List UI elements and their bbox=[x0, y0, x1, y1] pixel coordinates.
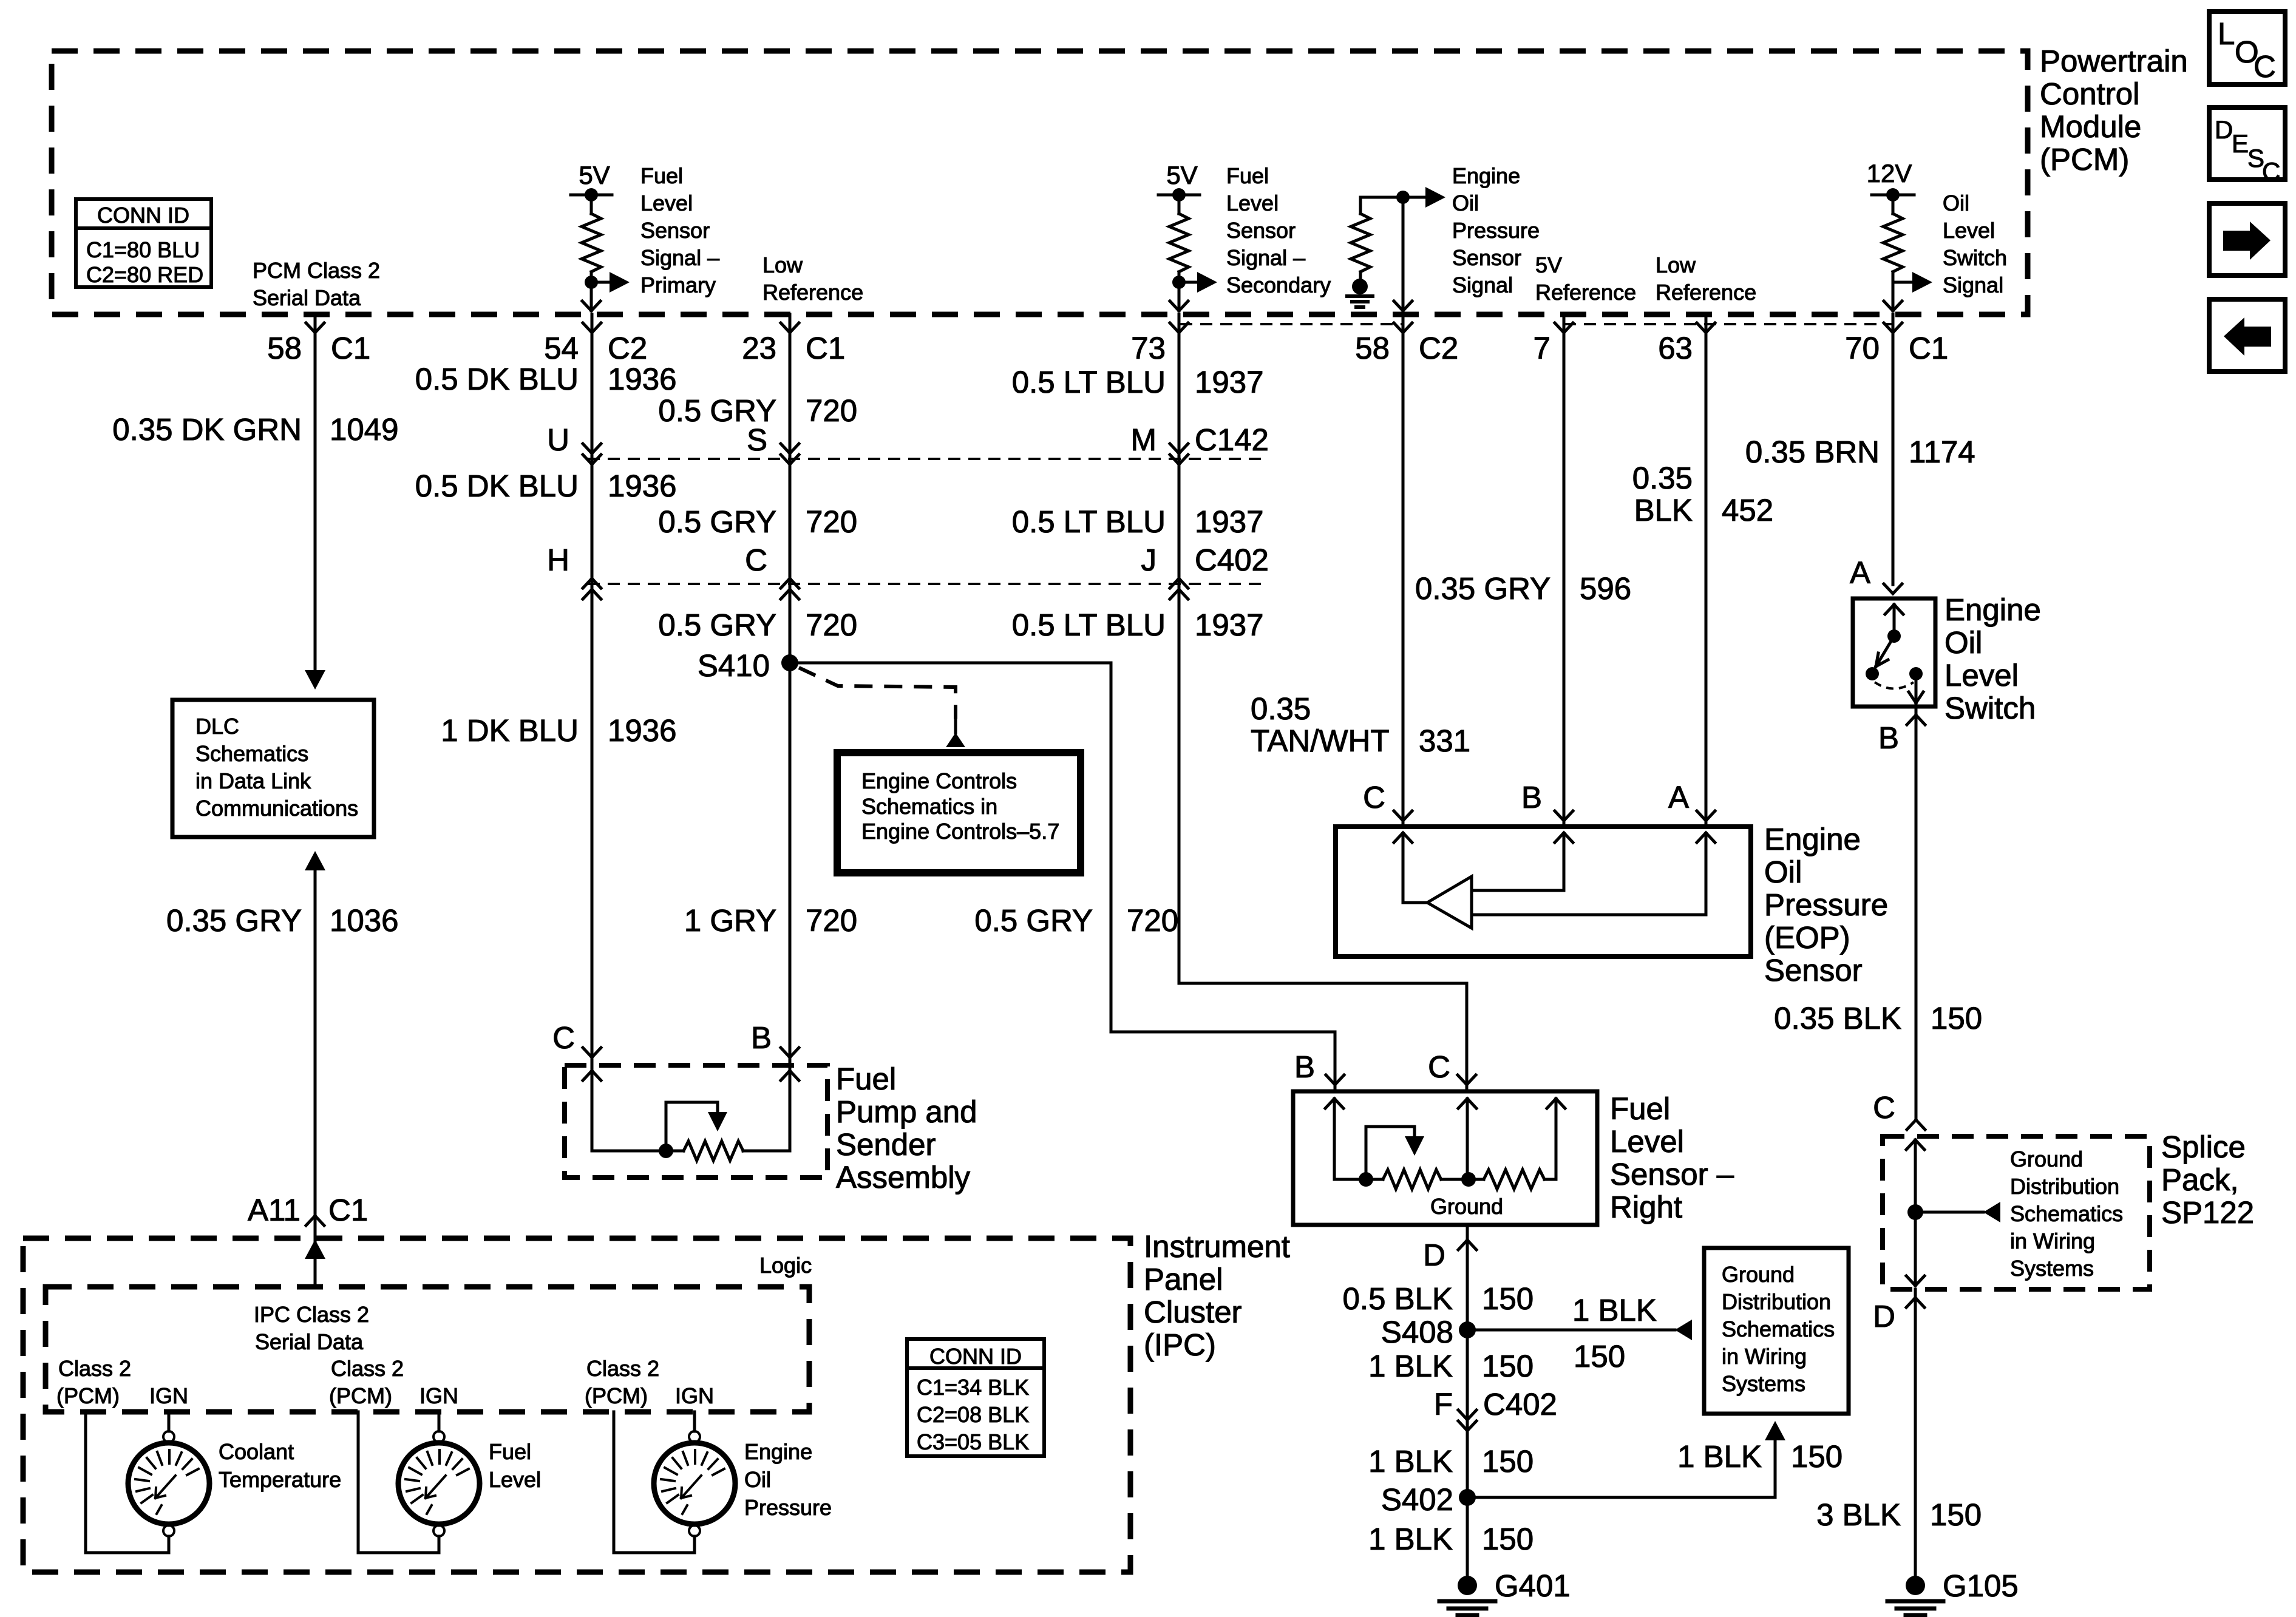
svg-text:C402: C402 bbox=[1195, 543, 1269, 577]
icon box DESC bbox=[2209, 107, 2285, 186]
5V supply rail (fuel level secondary) bbox=[1158, 188, 1200, 202]
svg-text:70: 70 bbox=[1845, 331, 1880, 365]
label Logic bbox=[759, 1253, 812, 1278]
svg-text:S408: S408 bbox=[1381, 1315, 1453, 1349]
gauge group 3 labels Class 2 (PCM) and IGN bbox=[585, 1356, 714, 1408]
svg-text:Low: Low bbox=[1656, 253, 1696, 277]
gauge group 1 IGN wire bbox=[168, 1412, 171, 1431]
svg-text:0.5 BLK: 0.5 BLK bbox=[1343, 1281, 1453, 1316]
fuel pump internal wire C with arrowhead bbox=[583, 1071, 601, 1151]
EOP pin B chevron and label bbox=[1521, 780, 1573, 821]
label PCM Class 2 Serial Data bbox=[253, 258, 380, 310]
label Fuel Level Sensor Signal - Secondary bbox=[1226, 163, 1331, 297]
svg-text:Engine Controls: Engine Controls bbox=[861, 768, 1017, 793]
EOP internal wire B with arrowhead bbox=[1472, 833, 1573, 890]
svg-text:Level: Level bbox=[1943, 218, 1995, 243]
svg-text:C2: C2 bbox=[608, 331, 647, 365]
svg-text:Sensor: Sensor bbox=[640, 218, 710, 243]
splice pack internal branch with left arrow bbox=[1915, 1202, 2000, 1222]
Ground Distribution Schematics box bbox=[1704, 1248, 1849, 1414]
CONN ID table (IPC): C1=34 BLK / C2=08 BLK / C3=05 BLK bbox=[907, 1339, 1044, 1456]
EOP internal amplifier triangle bbox=[1427, 876, 1472, 928]
C402 crossing chevrons on wire 73 with labels J and C402 bbox=[1141, 543, 1269, 599]
svg-text:A: A bbox=[1668, 780, 1689, 815]
label Fuel Level Sensor - Right bbox=[1610, 1091, 1734, 1224]
svg-text:C: C bbox=[2262, 157, 2280, 186]
label Engine Oil Pressure Sensor Signal bbox=[1452, 163, 1540, 297]
svg-text:TAN/WHT: TAN/WHT bbox=[1251, 724, 1390, 758]
svg-text:Systems: Systems bbox=[1722, 1371, 1805, 1396]
svg-text:0.35: 0.35 bbox=[1632, 461, 1693, 495]
svg-text:(EOP): (EOP) bbox=[1764, 920, 1850, 955]
wire: fuel right pin D down to ground G401 bbox=[1466, 1225, 1469, 1577]
EOP pin C chevron and label bbox=[1363, 780, 1412, 821]
svg-text:Schematics in: Schematics in bbox=[861, 794, 997, 819]
fuel right pin B chevron and label bbox=[1294, 1049, 1344, 1085]
svg-text:Pressure: Pressure bbox=[744, 1495, 832, 1520]
svg-text:Pressure: Pressure bbox=[1452, 218, 1540, 243]
gauge group 2 class 2 wire bbox=[358, 1412, 439, 1553]
svg-text:D: D bbox=[1423, 1238, 1445, 1272]
ground symbol inside PCM (oil pressure resistor) bbox=[1347, 279, 1373, 307]
svg-text:12V: 12V bbox=[1867, 159, 1912, 188]
svg-text:Ground: Ground bbox=[1430, 1194, 1503, 1219]
svg-text:Serial Data: Serial Data bbox=[253, 285, 361, 310]
svg-text:(PCM): (PCM) bbox=[2040, 142, 2129, 177]
svg-text:Engine Controls–5.7: Engine Controls–5.7 bbox=[861, 819, 1059, 844]
resistor: oil level switch pull-up bbox=[1883, 195, 1903, 282]
junction dot + horizontal jog + signal arrow (EOP sensor signal) bbox=[1360, 187, 1445, 208]
C142 crossing chevrons on wire 73 with labels M and C142 bbox=[1131, 422, 1269, 464]
svg-text:0.5 LT BLU: 0.5 LT BLU bbox=[1012, 608, 1166, 642]
svg-text:Oil: Oil bbox=[1764, 855, 1802, 889]
svg-text:Oil: Oil bbox=[1943, 191, 1969, 215]
fuel right internal right wire with arrowhead bbox=[1547, 1099, 1565, 1179]
svg-text:C2=80 RED: C2=80 RED bbox=[86, 262, 203, 287]
labels 1 BLK over 150 (S408 branch) bbox=[1572, 1293, 1657, 1374]
IPC logic inner dashed box bbox=[46, 1287, 809, 1412]
label 0.35 BLK 150 bbox=[1774, 1001, 1982, 1036]
thin dashed connector line between pins 73 and 58 C2 bbox=[1180, 323, 1403, 325]
connector C142 thin dashed line bbox=[588, 458, 1269, 460]
svg-text:Signal –: Signal – bbox=[1226, 245, 1305, 270]
label 0.5 BLK 150 bbox=[1343, 1281, 1534, 1316]
resistor: fuel level secondary pull-up bbox=[1169, 195, 1189, 282]
svg-text:54: 54 bbox=[544, 331, 579, 365]
svg-text:0.35 GRY: 0.35 GRY bbox=[166, 903, 302, 938]
svg-text:Distribution: Distribution bbox=[1722, 1289, 1831, 1314]
svg-text:73: 73 bbox=[1131, 331, 1166, 365]
svg-text:Reference: Reference bbox=[1656, 280, 1756, 305]
connector F C402 double chevron and labels bbox=[1434, 1387, 1557, 1431]
C402 crossing chevrons on wire 23 with label C bbox=[745, 543, 799, 599]
svg-text:C: C bbox=[1428, 1049, 1450, 1084]
label Fuel Pump and Sender Assembly bbox=[836, 1062, 977, 1195]
EOP internal wire C with arrowhead bbox=[1394, 833, 1427, 903]
svg-text:0.5 LT BLU: 0.5 LT BLU bbox=[1012, 365, 1166, 399]
C142 crossing chevrons on wire 54 with label U bbox=[547, 422, 601, 464]
junction dot + signal arrow (fuel level secondary) bbox=[1172, 272, 1217, 293]
svg-text:(PCM): (PCM) bbox=[329, 1383, 392, 1408]
fuel pump box pin C double chevron and label bbox=[552, 1020, 601, 1057]
svg-text:J: J bbox=[1141, 543, 1157, 577]
svg-text:1937: 1937 bbox=[1195, 365, 1263, 399]
label 12V bbox=[1867, 159, 1912, 188]
svg-text:Powertrain: Powertrain bbox=[2040, 44, 2188, 78]
PCM label text: Powertrain Control Module (PCM) bbox=[2040, 44, 2188, 177]
label 1 BLK 150 (below S408) bbox=[1368, 1349, 1533, 1383]
arrow into DLC box bbox=[305, 670, 325, 690]
svg-text:(PCM): (PCM) bbox=[56, 1383, 120, 1408]
pin 7 connector chevron and label bbox=[1533, 323, 1573, 365]
svg-text:Fuel: Fuel bbox=[1610, 1091, 1670, 1126]
label Engine Oil Pressure (EOP) Sensor bbox=[1764, 822, 1888, 988]
Splice Pack SP122 dashed box bbox=[1883, 1136, 2150, 1289]
wire: pin 58 C2 down to EOP sensor pin C (0.35 TAN/WHT 331) bbox=[1402, 314, 1405, 827]
svg-text:Schematics: Schematics bbox=[1722, 1317, 1835, 1341]
fuel right wiper arm with arrow bbox=[1366, 1127, 1424, 1179]
svg-text:58: 58 bbox=[267, 331, 302, 365]
label 1 BLK 150 (below S402) bbox=[1368, 1522, 1533, 1556]
label 1 BLK 150 (S402 branch) bbox=[1677, 1439, 1843, 1474]
wire: DLC box down to IPC (0.35 GRY 1036) bbox=[314, 870, 317, 1287]
gauge group 1 class 2 wire bbox=[86, 1412, 169, 1553]
svg-text:(IPC): (IPC) bbox=[1144, 1327, 1216, 1362]
gauge 1 (Coolant Temperature ) bbox=[128, 1431, 209, 1536]
svg-text:Oil: Oil bbox=[744, 1467, 771, 1492]
label Oil Level Switch Signal bbox=[1943, 191, 2007, 297]
fuel pump sender resistor bbox=[684, 1141, 743, 1161]
svg-text:Level: Level bbox=[1226, 191, 1279, 215]
splice pack pin D chevron and label bbox=[1873, 1298, 1924, 1334]
svg-text:Reference: Reference bbox=[1535, 280, 1636, 305]
svg-text:Pressure: Pressure bbox=[1764, 887, 1888, 922]
svg-text:Right: Right bbox=[1610, 1190, 1682, 1224]
svg-text:Signal: Signal bbox=[1452, 273, 1513, 297]
svg-text:Sender: Sender bbox=[836, 1127, 936, 1162]
svg-text:3 BLK: 3 BLK bbox=[1816, 1497, 1901, 1532]
pin 70 C1 connector chevron and labels bbox=[1845, 323, 1948, 365]
label 0.35 BLK 452 bbox=[1632, 461, 1773, 527]
wire: 1937 bend to fuel level sensor right pin C bbox=[1179, 983, 1467, 1091]
svg-text:7: 7 bbox=[1533, 331, 1550, 365]
svg-text:Level: Level bbox=[489, 1467, 541, 1492]
svg-text:1 DK BLU: 1 DK BLU bbox=[441, 713, 579, 748]
icon box forward arrow bbox=[2209, 203, 2285, 276]
pin 23 C1 connector chevron and labels bbox=[742, 323, 845, 365]
label 0.5 GRY 720 (segment 1) bbox=[658, 393, 857, 428]
svg-text:Control: Control bbox=[2040, 76, 2139, 111]
svg-text:D: D bbox=[2215, 115, 2233, 144]
svg-text:C1=80 BLU: C1=80 BLU bbox=[86, 237, 200, 262]
label Ground (inside fuel right box) bbox=[1430, 1194, 1503, 1219]
wire: PCM pin 58 C1 down to DLC box (0.35 DK GRN 1049) bbox=[314, 314, 317, 670]
svg-text:C: C bbox=[2254, 49, 2276, 84]
svg-text:B: B bbox=[1294, 1049, 1315, 1084]
svg-text:Switch: Switch bbox=[1944, 691, 2036, 725]
svg-text:M: M bbox=[1131, 422, 1156, 457]
label 0.35 GRY 596 bbox=[1415, 571, 1631, 606]
label 0.35 DK GRN 1049 bbox=[112, 412, 398, 447]
label 0.5 DK BLU 1936 (segment 2) bbox=[415, 469, 677, 503]
svg-text:Module: Module bbox=[2040, 109, 2141, 144]
fuel right pin D chevron and label bbox=[1423, 1238, 1476, 1272]
resistor: fuel level primary pull-up bbox=[582, 195, 601, 282]
fuel pump internal wire B with arrowhead bbox=[781, 1071, 799, 1151]
svg-text:C142: C142 bbox=[1195, 422, 1269, 457]
wire: pin 70 C1 down to oil level switch pin A (0.35 BRN 1174) bbox=[1892, 314, 1895, 585]
svg-text:C1: C1 bbox=[331, 331, 370, 365]
svg-text:S: S bbox=[747, 422, 767, 457]
svg-text:Class 2: Class 2 bbox=[331, 1356, 404, 1381]
fuel right fixed resistor bbox=[1484, 1170, 1544, 1189]
wire: pin 54 C2 down to fuel pump (DK BLU 1936) bbox=[591, 314, 594, 1151]
CONN ID table (PCM): C1=80 BLU / C2=80 RED bbox=[76, 199, 211, 287]
svg-text:150: 150 bbox=[1791, 1439, 1843, 1474]
svg-text:150: 150 bbox=[1574, 1339, 1625, 1374]
svg-text:150: 150 bbox=[1931, 1001, 1982, 1036]
svg-text:Sensor –: Sensor – bbox=[1610, 1157, 1734, 1192]
svg-text:DLC: DLC bbox=[195, 714, 239, 739]
svg-text:G401: G401 bbox=[1495, 1568, 1571, 1603]
svg-text:Sensor: Sensor bbox=[1764, 953, 1863, 988]
svg-text:150: 150 bbox=[1482, 1349, 1533, 1383]
label 5V (primary) bbox=[579, 161, 610, 189]
svg-text:0.35: 0.35 bbox=[1251, 691, 1311, 726]
svg-text:Pump and: Pump and bbox=[836, 1094, 977, 1129]
svg-text:Assembly: Assembly bbox=[836, 1160, 971, 1195]
svg-text:Distribution: Distribution bbox=[2010, 1174, 2119, 1199]
Engine Oil Level Switch box bbox=[1853, 598, 1935, 707]
svg-text:F: F bbox=[1434, 1387, 1453, 1422]
pin 63 connector chevron and label bbox=[1658, 323, 1715, 365]
svg-text:B: B bbox=[1521, 780, 1542, 815]
svg-text:Level: Level bbox=[1944, 658, 2019, 693]
switch internal contact with arrows and dashed throw arc bbox=[1866, 605, 1923, 703]
gauge group 3 class 2 wire bbox=[614, 1412, 695, 1553]
label 0.5 LT BLU 1937 (segment 3) bbox=[1012, 608, 1264, 642]
svg-text:1937: 1937 bbox=[1195, 504, 1263, 539]
gauge group 3 IGN wire bbox=[693, 1412, 696, 1431]
connector C402 thin dashed line bbox=[588, 583, 1269, 585]
fuel pump box pin B double chevron and label bbox=[751, 1020, 799, 1057]
label IPC Class 2 Serial Data bbox=[254, 1302, 369, 1354]
gauge 2 (Fuel Level ) bbox=[398, 1431, 480, 1536]
svg-text:Engine: Engine bbox=[1944, 592, 2041, 627]
svg-text:C: C bbox=[552, 1020, 575, 1055]
svg-text:Engine: Engine bbox=[1764, 822, 1861, 856]
pin 54 C2 connector chevron and labels bbox=[544, 323, 647, 365]
wire: pin 63 down to EOP sensor pin A (0.35 BLK 452) bbox=[1705, 314, 1708, 827]
label 0.5 GRY 720 (segment 2) bbox=[658, 504, 857, 539]
wire from EOP junction to PCM pin 58 C2 with arrowhead bbox=[1394, 197, 1412, 311]
svg-text:Schematics: Schematics bbox=[195, 741, 308, 766]
splice S408 junction dot and label bbox=[1381, 1315, 1476, 1349]
svg-text:Cluster: Cluster bbox=[1144, 1295, 1242, 1329]
svg-text:IGN: IGN bbox=[675, 1383, 714, 1408]
label 0.35 TAN/WHT 331 bbox=[1251, 691, 1470, 758]
pin 73 connector chevron and label bbox=[1131, 323, 1188, 365]
gauge group 2 labels Class 2 (PCM) and IGN bbox=[329, 1356, 458, 1408]
svg-text:C1: C1 bbox=[806, 331, 845, 365]
svg-text:C3=05 BLK: C3=05 BLK bbox=[917, 1429, 1029, 1454]
svg-text:B: B bbox=[1878, 720, 1899, 755]
wire: S402 branch up to ground distribution box with arrow (1 BLK 150) bbox=[1467, 1421, 1785, 1497]
fuel right internal wire C with arrowhead bbox=[1458, 1099, 1476, 1179]
Engine Oil Pressure (EOP) Sensor box bbox=[1336, 827, 1751, 957]
svg-text:Level: Level bbox=[640, 191, 693, 215]
svg-text:0.35 BRN: 0.35 BRN bbox=[1745, 435, 1880, 469]
wire from resistor to PCM pin 54 with arrowhead bbox=[582, 282, 600, 311]
Engine Controls Schematics reference box bbox=[837, 753, 1081, 873]
label 0.5 LT BLU 1937 (segment 1) bbox=[1012, 365, 1264, 399]
svg-text:1936: 1936 bbox=[608, 469, 676, 503]
gauge group 1 labels Class 2 (PCM) and IGN bbox=[56, 1356, 188, 1408]
svg-text:Ground: Ground bbox=[2010, 1147, 2083, 1171]
label 1 GRY 720 bbox=[684, 903, 857, 938]
C142 crossing chevrons on wire 23 with label S bbox=[747, 422, 799, 464]
svg-text:IGN: IGN bbox=[149, 1383, 188, 1408]
svg-text:S402: S402 bbox=[1381, 1482, 1453, 1517]
svg-text:C2=08 BLK: C2=08 BLK bbox=[917, 1402, 1029, 1427]
svg-text:Engine: Engine bbox=[744, 1439, 812, 1464]
svg-text:C402: C402 bbox=[1483, 1387, 1557, 1422]
fuel pump wiper arm with arrow bbox=[666, 1102, 727, 1151]
label Ground Distribution Schematics in Wiring Systems (splice pack) bbox=[2010, 1147, 2123, 1281]
svg-text:A: A bbox=[1850, 555, 1870, 590]
label 0.35 BRN 1174 bbox=[1745, 435, 1975, 469]
DLC Schematics reference box bbox=[172, 700, 374, 837]
svg-text:Logic: Logic bbox=[759, 1253, 812, 1278]
PCM module dashed outline box bbox=[52, 51, 2028, 314]
svg-text:Switch: Switch bbox=[1943, 245, 2007, 270]
svg-text:Ground: Ground bbox=[1722, 1262, 1795, 1287]
gauge 3 (Engine Oil Pressure) bbox=[654, 1431, 735, 1536]
label 1 BLK 150 (above S402) bbox=[1368, 1444, 1533, 1479]
svg-text:in Data Link: in Data Link bbox=[195, 768, 311, 793]
fuel right internal wire B with arrowhead bbox=[1325, 1099, 1343, 1179]
svg-text:0.5 DK BLU: 0.5 DK BLU bbox=[415, 362, 579, 396]
svg-text:L: L bbox=[2218, 16, 2235, 51]
svg-text:in Wiring: in Wiring bbox=[1722, 1344, 1807, 1369]
svg-text:E: E bbox=[2232, 129, 2249, 158]
5V supply rail (fuel level primary) bbox=[571, 188, 612, 202]
svg-text:23: 23 bbox=[742, 331, 776, 365]
svg-text:Schematics: Schematics bbox=[2010, 1201, 2123, 1226]
gauge 3 name label bbox=[744, 1439, 832, 1520]
svg-text:PCM Class 2: PCM Class 2 bbox=[253, 258, 380, 283]
svg-text:Instrument: Instrument bbox=[1144, 1229, 1290, 1264]
svg-text:IGN: IGN bbox=[419, 1383, 458, 1408]
gauge 1 name label bbox=[219, 1439, 341, 1492]
svg-text:1 BLK: 1 BLK bbox=[1368, 1444, 1453, 1479]
ground G401 symbol and label bbox=[1439, 1568, 1571, 1615]
svg-text:Pack,: Pack, bbox=[2161, 1162, 2239, 1197]
wire from resistor to PCM pin 73 with arrowhead bbox=[1170, 282, 1188, 311]
svg-text:452: 452 bbox=[1722, 493, 1773, 527]
svg-text:Signal: Signal bbox=[1943, 273, 2003, 297]
fuel right pin C chevron and label bbox=[1428, 1049, 1476, 1085]
svg-text:5V: 5V bbox=[1166, 161, 1197, 189]
label 5V (secondary) bbox=[1166, 161, 1197, 189]
svg-text:1 BLK: 1 BLK bbox=[1572, 1293, 1657, 1327]
svg-text:720: 720 bbox=[806, 504, 857, 539]
svg-text:Engine: Engine bbox=[1452, 163, 1520, 188]
svg-text:0.5 GRY: 0.5 GRY bbox=[658, 504, 776, 539]
svg-text:C: C bbox=[1363, 780, 1385, 815]
label Splice Pack, SP122 bbox=[2161, 1130, 2254, 1230]
pin 58 C2 connector chevron and labels bbox=[1355, 323, 1458, 365]
svg-text:C1: C1 bbox=[328, 1193, 368, 1227]
pin 58 C1 connector chevron and labels bbox=[267, 323, 370, 365]
svg-text:Communications: Communications bbox=[195, 796, 358, 821]
svg-text:58: 58 bbox=[1355, 331, 1390, 365]
label Engine Oil Level Switch bbox=[1944, 592, 2041, 725]
svg-text:1 BLK: 1 BLK bbox=[1368, 1522, 1453, 1556]
svg-text:Fuel: Fuel bbox=[489, 1439, 531, 1464]
svg-text:0.5 GRY: 0.5 GRY bbox=[658, 608, 776, 642]
svg-text:in Wiring: in Wiring bbox=[2010, 1229, 2095, 1253]
svg-text:1 BLK: 1 BLK bbox=[1368, 1349, 1453, 1383]
svg-text:D: D bbox=[1873, 1299, 1895, 1334]
svg-text:C2: C2 bbox=[1419, 331, 1458, 365]
label 0.5 DK BLU 1936 (segment 1) bbox=[415, 362, 677, 396]
svg-text:CONN ID: CONN ID bbox=[929, 1344, 1022, 1369]
svg-text:1 GRY: 1 GRY bbox=[684, 903, 776, 938]
svg-text:150: 150 bbox=[1482, 1522, 1533, 1556]
icon box back arrow bbox=[2209, 299, 2285, 371]
IPC outer dashed box bbox=[23, 1238, 1130, 1572]
svg-text:720: 720 bbox=[806, 393, 857, 428]
svg-text:5V: 5V bbox=[1535, 253, 1562, 277]
label 0.35 GRY 1036 bbox=[166, 903, 399, 938]
splice S410 junction dot and label bbox=[698, 648, 798, 683]
wire: pin 7 down to EOP sensor pin B (0.35 GRY 596) bbox=[1563, 314, 1566, 827]
svg-text:5V: 5V bbox=[579, 161, 610, 189]
svg-text:720: 720 bbox=[1127, 903, 1178, 938]
C402 crossing chevrons on wire 54 with label H bbox=[547, 543, 601, 599]
svg-text:720: 720 bbox=[806, 608, 857, 642]
icon box LOC (top right) bbox=[2209, 12, 2285, 84]
svg-text:Panel: Panel bbox=[1144, 1262, 1223, 1297]
svg-text:Temperature: Temperature bbox=[219, 1467, 341, 1492]
label 0.5 GRY 720 (S410 branch) bbox=[974, 903, 1178, 938]
svg-text:IPC Class 2: IPC Class 2 bbox=[254, 1302, 369, 1327]
svg-text:Serial Data: Serial Data bbox=[255, 1329, 364, 1354]
svg-text:S410: S410 bbox=[698, 648, 770, 683]
signal arrow (oil level switch signal) bbox=[1893, 272, 1932, 293]
svg-text:Splice: Splice bbox=[2161, 1130, 2246, 1164]
svg-text:331: 331 bbox=[1419, 724, 1470, 758]
arrow up toward A11 inside IPC bbox=[305, 1239, 325, 1259]
label Low Reference (pin 63) bbox=[1656, 253, 1756, 305]
wire: switch pin B down to splice pack (0.35 BLK 150) bbox=[1915, 707, 1918, 1120]
svg-text:596: 596 bbox=[1580, 571, 1631, 606]
svg-text:Coolant: Coolant bbox=[219, 1439, 294, 1464]
svg-text:C1: C1 bbox=[1909, 331, 1948, 365]
label Low Reference (pin 23) bbox=[763, 253, 863, 305]
svg-text:Signal –: Signal – bbox=[640, 245, 719, 270]
svg-text:G105: G105 bbox=[1943, 1568, 2019, 1603]
resistor: engine oil pressure pull-down to ground bbox=[1351, 197, 1370, 280]
splice pack pin C chevron and label bbox=[1873, 1090, 1925, 1130]
wire: pin 73 down (LT BLU 1937) bbox=[1178, 314, 1181, 983]
label 5V Reference (pin 7) bbox=[1535, 253, 1636, 305]
label Fuel Level Sensor Signal - Primary bbox=[640, 163, 719, 297]
svg-text:U: U bbox=[547, 422, 569, 457]
svg-text:BLK: BLK bbox=[1634, 493, 1693, 527]
EOP internal wire A with arrowhead bbox=[1472, 833, 1715, 915]
